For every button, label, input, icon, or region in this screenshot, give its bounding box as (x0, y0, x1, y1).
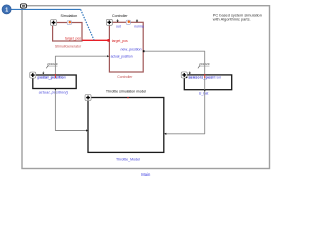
annotation 201029 right (198, 62, 210, 68)
svg-text:pedal_positio: pedal_positio (38, 75, 64, 79)
svg-text:target_pos: target_pos (65, 36, 81, 40)
port label sensors_position (188, 76, 221, 80)
svg-text:201029: 201029 (47, 62, 58, 66)
svg-text:actual_position(): actual_position() (39, 91, 69, 95)
svg-text:Throttle simulation model: Throttle simulation model (106, 89, 146, 93)
port label pedal_position (37, 75, 66, 79)
svg-text:Controller: Controller (112, 14, 128, 18)
port marker triangle pedal block (42, 72, 44, 75)
svg-text:with Algorithmic parts.: with Algorithmic parts. (213, 16, 251, 21)
wire new_position to throttle right (143, 50, 205, 135)
svg-text:Controller: Controller (117, 75, 133, 79)
port marker triangle measurement block (189, 72, 191, 75)
outer frame Main (22, 6, 270, 169)
connection marker red throttle top (127, 97, 129, 99)
svg-text:new_position: new_position (121, 48, 142, 52)
block Controller (109, 22, 143, 72)
port marker orange Controller (126, 20, 130, 24)
callout leader line (11, 9, 94, 40)
port arrow inside measurement block (186, 76, 188, 78)
svg-text:U_bat: U_bat (199, 92, 209, 96)
svg-text:Throttle_Model: Throttle_Model (116, 157, 140, 161)
svg-text:Main: Main (141, 172, 151, 177)
note text PC based system simulation (213, 13, 262, 22)
wire pedal to throttle left (55, 89, 88, 132)
port marker triangle out (116, 19, 118, 22)
connection marker red pedal block (55, 74, 57, 78)
expand button Throttle (85, 95, 91, 101)
block measurement hardware (184, 75, 231, 90)
expand button Controller (106, 19, 112, 25)
expand button pedal block (30, 72, 36, 78)
port marker triangle norm (136, 19, 138, 22)
annotation 201029 left (46, 62, 58, 68)
callout circle 1 (2, 5, 11, 14)
block Simulation / StimuliGenerator (53, 23, 82, 42)
svg-text:1: 1 (5, 7, 8, 13)
svg-text:out: out (116, 24, 121, 28)
expand button measurement block (181, 72, 187, 78)
svg-text:sensors_posi: sensors_posi (189, 76, 213, 80)
output arrow pedal block bottom (54, 89, 56, 91)
wire target_pos red (82, 39, 110, 42)
port marker orange Simulation (67, 21, 71, 25)
wire actual_position to controller (55, 55, 109, 75)
svg-text:StimuliGenerator: StimuliGenerator (55, 45, 82, 49)
block pedal sensor (33, 75, 76, 89)
svg-text:norma: norma (134, 24, 144, 28)
svg-text:target_pos: target_pos (112, 39, 128, 43)
block Throttle simulation model (88, 98, 164, 153)
connection marker red measurement block (204, 74, 206, 78)
svg-text:actual_position: actual_position (111, 54, 133, 58)
collapse button minus (21, 4, 27, 8)
svg-text:Simulation: Simulation (61, 14, 78, 18)
output arrow measurement block bottom (204, 90, 206, 92)
expand button Simulation (51, 20, 57, 26)
